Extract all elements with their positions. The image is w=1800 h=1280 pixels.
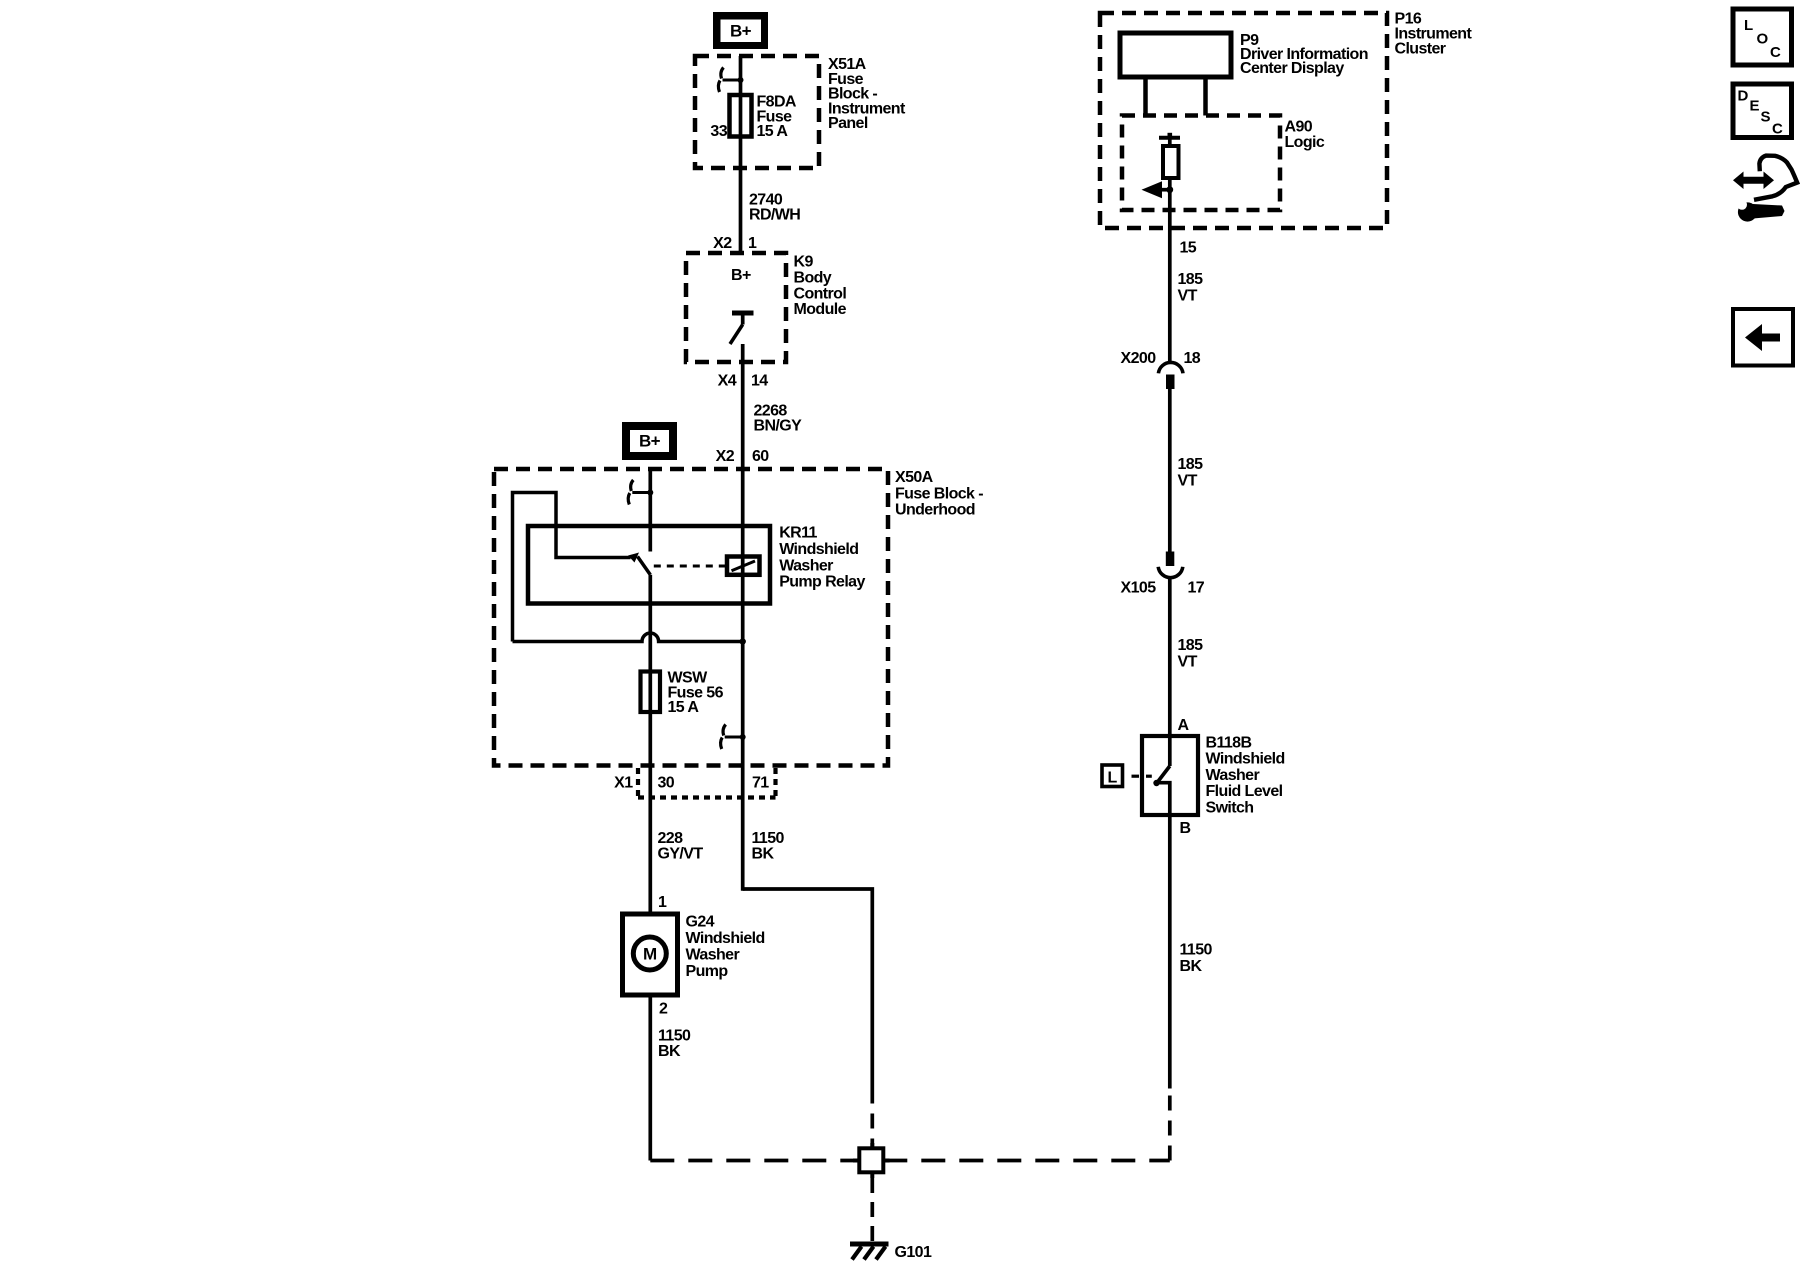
svg-text:Center Display: Center Display (1240, 60, 1344, 77)
dashed wire G24 to splice (650, 1159, 859, 1163)
svg-text:M: M (643, 945, 657, 964)
svg-text:X2: X2 (716, 448, 735, 465)
svg-text:L: L (1108, 770, 1118, 787)
wire label 2740 RD/WH (749, 192, 800, 224)
wire label 185 VT (3) (1178, 637, 1204, 671)
label A90 Logic (1285, 119, 1325, 152)
pin X2 / 60 (716, 448, 770, 465)
connector terminal (relay output 71) (721, 725, 746, 750)
motor G24 windshield washer pump (623, 914, 678, 995)
svg-text:VT: VT (1178, 473, 1198, 490)
switch (K9 high side driver) (730, 313, 754, 344)
float sensor L box (1102, 765, 1123, 787)
relay contact arrowhead (628, 553, 639, 563)
svg-text:Windshield: Windshield (686, 930, 765, 947)
svg-text:A90: A90 (1285, 119, 1313, 136)
svg-text:185: 185 (1178, 637, 1204, 654)
svg-text:RD/WH: RD/WH (749, 207, 800, 224)
svg-text:X2: X2 (713, 235, 732, 252)
wire X200 to X105 (1168, 389, 1172, 552)
svg-text:GY/VT: GY/VT (658, 845, 704, 862)
pin labels X200 / 18 (1121, 350, 1201, 367)
instrument cluster P16 (dashed) (1100, 13, 1387, 228)
svg-text:17: 17 (1188, 580, 1205, 597)
inline connector X200 (1158, 362, 1183, 389)
battery feed B+ (top) (713, 12, 768, 49)
svg-text:E: E (1750, 98, 1760, 115)
label F8DA Fuse 15 A (757, 94, 797, 141)
svg-text:1: 1 (658, 894, 667, 911)
pin labels X105 / 17 (1121, 580, 1205, 597)
svg-text:G101: G101 (895, 1244, 932, 1261)
connector terminal (X50A B+ feed) (628, 480, 653, 505)
label X50A Fuse Block - Underhood (895, 469, 983, 519)
label G24 Windshield Washer Pump (686, 914, 765, 981)
module K9 body control module (dashed) (686, 253, 786, 362)
wire label 1150 BK (B118B) (1180, 942, 1213, 975)
switch B118B fluid level box (1142, 736, 1198, 815)
wire B118B out to pin B and down (1157, 783, 1170, 1089)
nav icon double arrow (1733, 172, 1774, 190)
svg-text:BK: BK (658, 1043, 681, 1060)
wire label 228 GY/VT (658, 830, 704, 862)
svg-text:B118B: B118B (1206, 735, 1252, 752)
signal arrow (to logic) (1142, 181, 1174, 198)
svg-text:X1: X1 (614, 775, 633, 792)
dashed wire B118B down leg (1168, 1092, 1172, 1161)
svg-text:L: L (1744, 17, 1753, 34)
dashed wire splice to ground (870, 1178, 874, 1245)
svg-text:A: A (1178, 717, 1190, 734)
svg-text:2: 2 (659, 1001, 668, 1018)
wire label 185 VT (1) (1178, 271, 1204, 305)
logic module A90 (dashed) (1122, 116, 1280, 211)
desc icon box (1733, 84, 1792, 138)
dashed wire splice to B118B branch (883, 1159, 1170, 1163)
label KR11 Windshield Washer Pump Relay (779, 525, 865, 591)
svg-text:X105: X105 (1121, 580, 1157, 597)
svg-text:BK: BK (1180, 958, 1203, 975)
link wire with hop over pump feed (513, 633, 743, 641)
svg-text:Cluster: Cluster (1395, 41, 1446, 58)
svg-text:Body: Body (794, 269, 832, 286)
svg-text:Underhood: Underhood (895, 502, 975, 519)
svg-text:X4: X4 (718, 373, 737, 390)
svg-text:Fuse Block -: Fuse Block - (895, 485, 983, 502)
svg-text:185: 185 (1178, 456, 1204, 473)
display P9 (1120, 33, 1231, 77)
svg-text:Washer: Washer (779, 557, 833, 574)
wire fuse to BCM (739, 137, 743, 256)
svg-text:14: 14 (751, 373, 768, 390)
sensor dashed link (1132, 775, 1152, 778)
svg-text:Washer: Washer (1206, 767, 1260, 784)
relay fixed contact feed (hook wire) (513, 493, 631, 642)
label WSW Fuse 56 15 A (668, 670, 724, 717)
label K9 Body Control Module (794, 254, 847, 319)
svg-text:B+: B+ (731, 267, 751, 284)
pin X4 / 14 (718, 373, 769, 390)
svg-text:15: 15 (1180, 240, 1197, 257)
svg-text:Washer: Washer (686, 947, 740, 964)
fuse WSW (641, 672, 661, 713)
battery feed B+ (X50A) (622, 422, 677, 471)
resistor (A90 pull-up) (1159, 133, 1180, 178)
B118B switch blade (1153, 766, 1170, 786)
svg-text:Panel: Panel (828, 115, 868, 132)
wire label 1150 BK (pin 71) (752, 830, 785, 862)
svg-text:185: 185 (1178, 271, 1204, 288)
svg-text:B+: B+ (639, 432, 661, 451)
wire X105 to B118B (1168, 579, 1172, 767)
ground symbol G101 (850, 1244, 889, 1260)
svg-text:VT: VT (1178, 288, 1198, 305)
label P16 Instrument Cluster (1395, 11, 1473, 58)
wire B+ to fuse F8DA (739, 56, 743, 96)
P9 legs (1146, 77, 1206, 116)
wire A90 to X200 (1168, 178, 1172, 363)
svg-text:B: B (1180, 820, 1191, 837)
wire K9 to relay coil (741, 344, 745, 891)
svg-text:BK: BK (752, 845, 775, 862)
fuse block X50A underhood (dashed) (494, 469, 888, 766)
back arrow icon box (1733, 309, 1793, 366)
wire label 185 VT (2) (1178, 456, 1204, 490)
fuse block X51A (dashed) (695, 56, 819, 168)
svg-text:1150: 1150 (1180, 942, 1213, 959)
wire label 2268 BN/GY (754, 403, 803, 435)
svg-text:BN/GY: BN/GY (754, 417, 803, 434)
svg-text:30: 30 (658, 775, 675, 792)
svg-text:KR11: KR11 (779, 525, 817, 542)
svg-text:Windshield: Windshield (779, 541, 858, 558)
svg-text:18: 18 (1184, 350, 1201, 367)
connector terminal (X51A feed) (718, 68, 743, 93)
relay coil (727, 557, 760, 575)
nav icon outline arrow (1754, 156, 1797, 200)
pin X2 / 1 (713, 235, 757, 252)
splice square (853, 1143, 890, 1178)
svg-text:X200: X200 (1121, 350, 1157, 367)
svg-text:Module: Module (794, 301, 847, 318)
svg-text:VT: VT (1178, 654, 1198, 671)
svg-text:G24: G24 (686, 914, 715, 931)
wire G24 to splice corner (648, 995, 652, 1161)
svg-text:X50A: X50A (895, 469, 934, 486)
svg-text:Pump Relay: Pump Relay (779, 574, 865, 591)
svg-text:O: O (1757, 31, 1769, 48)
wire relay switch to fuse WSW (648, 575, 652, 914)
relay control dashed link (654, 565, 727, 568)
loc icon box (1733, 9, 1792, 65)
wire pin71 to ground run (743, 889, 873, 1089)
label B118B Windshield Washer Fluid Level Switch (1206, 735, 1285, 817)
inline connector X105 (1158, 552, 1183, 578)
relay KR11 outline box (528, 526, 770, 604)
pin box X1 (dotted) (638, 768, 776, 798)
wire B+ into relay switch (648, 469, 652, 552)
svg-text:Windshield: Windshield (1206, 751, 1285, 768)
label X51A Fuse Block - Instrument Panel (828, 56, 906, 132)
svg-text:Logic: Logic (1285, 134, 1325, 151)
svg-text:Control: Control (794, 285, 847, 302)
svg-text:D: D (1738, 88, 1749, 105)
svg-text:60: 60 (752, 448, 769, 465)
pin labels X1 30 71 (614, 775, 769, 792)
svg-text:Pump: Pump (686, 963, 729, 980)
svg-text:C: C (1772, 121, 1783, 138)
relay switch blade (638, 557, 651, 575)
svg-text:C: C (1770, 44, 1781, 61)
svg-text:S: S (1761, 109, 1771, 126)
svg-text:K9: K9 (794, 254, 814, 271)
svg-text:Fluid Level: Fluid Level (1206, 783, 1283, 800)
svg-text:Switch: Switch (1206, 799, 1254, 816)
svg-text:B+: B+ (730, 22, 752, 41)
svg-text:71: 71 (752, 775, 769, 792)
wire label 1150 BK (G24) (658, 1028, 691, 1060)
junction dot (coil to contact link) (740, 638, 746, 644)
svg-text:1: 1 (748, 235, 757, 252)
svg-text:15 A: 15 A (668, 699, 700, 716)
nav icon wrench (1737, 200, 1785, 222)
svg-text:33: 33 (710, 123, 727, 140)
svg-text:15 A: 15 A (757, 123, 789, 140)
fuse F8DA (730, 95, 752, 137)
dashed wire pin71 branch to splice (870, 1089, 874, 1149)
label P9 Driver Information Center Display (1240, 32, 1368, 77)
